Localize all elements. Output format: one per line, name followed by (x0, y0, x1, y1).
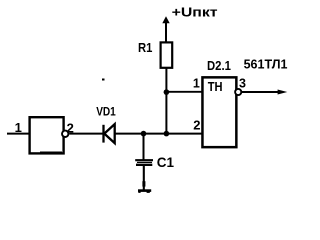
pin label 1 (left gate) (15, 120, 22, 135)
svg-text:D2.1: D2.1 (207, 58, 231, 73)
svg-text:ТН: ТН (208, 79, 223, 94)
wire gate output to diode VD1 (69, 133, 103, 135)
pin label 2 (left gate) (67, 120, 74, 135)
wire capacitor to ground (142, 166, 145, 190)
capacitor C1 (135, 160, 153, 165)
label R1 (138, 40, 152, 55)
inversion bubble pin 3 (235, 89, 241, 95)
label +Upit (172, 4, 218, 19)
pin label 2 (D2.1) (193, 117, 200, 132)
wire node A to pin 1 of D2.1 (166, 91, 202, 93)
svg-text:C1: C1 (157, 154, 174, 170)
wire node C down to capacitor (143, 134, 145, 160)
resistor R1 (161, 42, 173, 67)
pin label 1 (D2.1) (193, 77, 200, 91)
svg-text:2: 2 (193, 117, 200, 132)
svg-text:VD1: VD1 (96, 105, 116, 119)
label D2.1 (207, 58, 231, 73)
wire diode to pin 2 of D2.1 (115, 133, 203, 135)
power net +U arrow (162, 16, 169, 41)
svg-text:+Uпкт: +Uпкт (172, 4, 218, 19)
pin label 3 (239, 76, 246, 90)
wire output pin 3 with arrow (241, 90, 287, 95)
left logic gate box (30, 117, 64, 153)
node A junction dot (164, 89, 170, 95)
label C1 (157, 154, 174, 170)
label 561TL1 (244, 57, 288, 72)
ground (138, 191, 151, 193)
node B junction dot (164, 131, 170, 137)
node C junction dot (capacitor tap) (141, 131, 147, 137)
svg-text:3: 3 (239, 76, 246, 90)
svg-text:561ТЛ1: 561ТЛ1 (244, 57, 288, 72)
Schmitt trigger D2.1 box (202, 77, 236, 147)
noise speck (102, 79, 105, 81)
wire resistor bottom to node B vertical (165, 69, 167, 135)
svg-text:1: 1 (193, 77, 200, 91)
label TH inside D2.1 (208, 79, 223, 94)
svg-text:1: 1 (15, 120, 22, 135)
diode VD1 (104, 124, 115, 143)
svg-text:R1: R1 (138, 40, 152, 55)
wire input to left gate (7, 133, 29, 135)
inversion bubble of left gate (62, 131, 68, 137)
label VD1 (96, 105, 116, 119)
